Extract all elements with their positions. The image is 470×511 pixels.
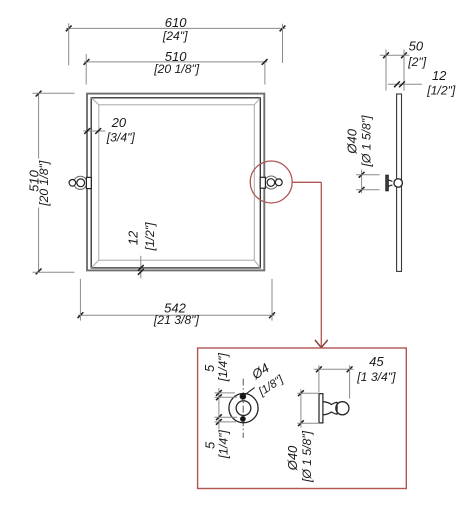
svg-text:[2"]: [2"] <box>407 55 426 69</box>
svg-text:50: 50 <box>409 39 424 54</box>
svg-text:5: 5 <box>202 441 217 449</box>
svg-text:12: 12 <box>432 68 447 83</box>
svg-text:5: 5 <box>202 364 217 372</box>
svg-text:Ø40: Ø40 <box>344 128 359 154</box>
svg-text:[1/4"]: [1/4"] <box>216 353 230 383</box>
svg-text:[20 1/8"]: [20 1/8"] <box>37 160 51 207</box>
svg-text:[Ø 1 5/8"]: [Ø 1 5/8"] <box>359 115 373 168</box>
svg-text:20: 20 <box>111 115 127 130</box>
svg-text:45: 45 <box>369 354 384 369</box>
svg-text:[3/4"]: [3/4"] <box>106 130 136 144</box>
svg-text:[1/4"]: [1/4"] <box>217 430 231 460</box>
svg-text:Ø40: Ø40 <box>285 445 300 471</box>
svg-text:[1 3/4"]: [1 3/4"] <box>356 370 396 384</box>
svg-text:[1/2"]: [1/2"] <box>426 84 456 98</box>
svg-text:610: 610 <box>165 15 187 30</box>
svg-text:[21 3/8"]: [21 3/8"] <box>153 313 200 327</box>
svg-text:[20 1/8"]: [20 1/8"] <box>153 62 200 76</box>
svg-text:12: 12 <box>125 230 140 245</box>
svg-text:[24"]: [24"] <box>162 29 188 43</box>
svg-text:[Ø 1 5/8"]: [Ø 1 5/8"] <box>300 430 314 483</box>
svg-text:Ø4: Ø4 <box>248 360 272 383</box>
svg-text:[1/2"]: [1/2"] <box>143 222 157 252</box>
